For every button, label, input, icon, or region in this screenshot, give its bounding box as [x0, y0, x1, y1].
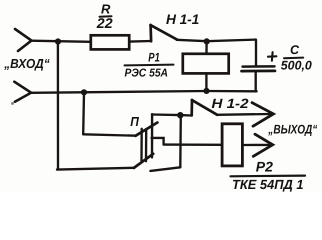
svg-text:П: П — [130, 114, 139, 129]
svg-text:„ВХОД“: „ВХОД“ — [3, 56, 50, 71]
label fraction bar P1 — [125, 64, 174, 67]
transistor Q1 collector diagonal — [134, 154, 153, 168]
relay P2 box — [222, 124, 242, 166]
wire vertical from H1-2 dot down — [179, 115, 182, 167]
output terminal arrow 1 — [252, 103, 273, 127]
label fraction bar C — [284, 57, 303, 60]
node junction dot lower bus — [81, 89, 87, 95]
svg-text:Н 1-2: Н 1-2 — [212, 96, 250, 111]
svg-text:Р1: Р1 — [148, 50, 160, 64]
wire resistor to switch — [130, 40, 151, 43]
wire bottom input line to capacitor — [31, 91, 257, 93]
output terminal arrow 2 — [253, 134, 272, 156]
svg-text:РЭС 55А: РЭС 55А — [125, 68, 169, 80]
transistor Q1 collector lead vertical — [151, 114, 154, 157]
capacitor C bottom lead — [255, 72, 257, 91]
resistor R1 box — [91, 35, 129, 49]
wire switch H1-2 to output arrow 1 — [217, 113, 270, 116]
wire top input to resistor — [31, 41, 91, 42]
svg-text:Р2: Р2 — [256, 158, 273, 174]
wire switch H1-1 to capacitor corner — [177, 40, 256, 42]
node junction dot on top wire — [55, 38, 61, 44]
node junction dot relay bottom — [203, 88, 209, 94]
wire relay P1 top lead — [205, 41, 207, 53]
transistor Q1 base plate line 2 — [145, 129, 148, 161]
wire vertical left bus — [57, 42, 59, 170]
svg-text:ТКЕ 54ПД 1: ТКЕ 54ПД 1 — [232, 177, 304, 192]
svg-text:Н 1-1: Н 1-1 — [166, 12, 199, 27]
wire transistor top to switch H1-2 — [152, 115, 192, 116]
svg-text:22: 22 — [96, 15, 113, 31]
svg-text:„ВЫХОД“: „ВЫХОД“ — [268, 123, 318, 137]
capacitor C top lead — [255, 40, 257, 65]
capacitor polarity plus sign — [268, 52, 276, 61]
node junction dot H1-2 — [177, 112, 183, 118]
svg-text:С: С — [290, 43, 300, 57]
label fraction bar P2 — [231, 175, 306, 178]
label R value fraction bar — [100, 15, 112, 17]
input terminal arrow 1 „ВХОД" top — [15, 29, 32, 51]
capacitor C plates — [243, 65, 275, 68]
svg-text:500,0: 500,0 — [281, 59, 312, 73]
switch H1-2 — [192, 100, 218, 115]
wire relay P1 bottom lead — [205, 74, 207, 91]
relay P1 coil box — [183, 54, 229, 74]
node junction dot relay top — [204, 38, 210, 44]
wire middle to relay P2 — [164, 143, 222, 146]
wire to transistor base — [83, 134, 136, 135]
wire bottom horizontal to transistor — [57, 168, 134, 170]
transistor Q1 emitter diagonal — [136, 123, 158, 136]
wire vertical from lower bus dot — [82, 92, 85, 134]
ink speck — [11, 102, 14, 105]
wire bottom segment under transistor — [150, 167, 180, 171]
wire relay P2 to output arrow 2 — [244, 144, 269, 146]
switch H1-1 — [151, 25, 178, 41]
input terminal arrow 2 „ВХОД" bottom — [14, 82, 31, 102]
transistor emitter step stub — [152, 138, 164, 145]
transistor Q1 base plate line 1 — [140, 129, 143, 161]
